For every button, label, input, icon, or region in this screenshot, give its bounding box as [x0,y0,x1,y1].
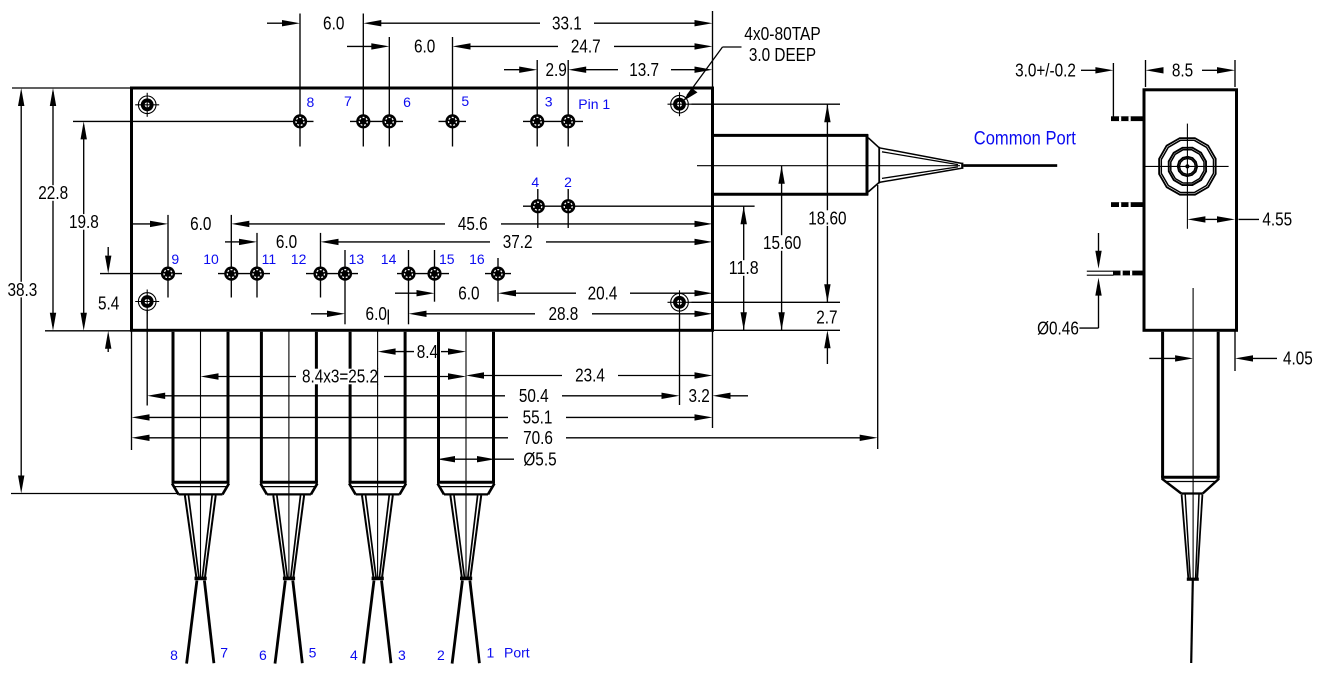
svg-text:Ø5.5: Ø5.5 [523,448,556,469]
svg-text:5: 5 [309,645,317,661]
svg-text:6.0: 6.0 [414,36,435,57]
svg-text:3.2: 3.2 [688,385,709,406]
svg-text:6: 6 [259,647,267,663]
svg-text:12: 12 [291,251,307,267]
svg-text:11: 11 [262,251,277,267]
svg-text:1: 1 [487,645,495,661]
svg-text:5.4: 5.4 [98,293,119,314]
svg-text:7: 7 [220,645,228,661]
svg-text:13: 13 [349,251,365,267]
svg-text:6.0: 6.0 [323,12,344,33]
svg-text:3.0 DEEP: 3.0 DEEP [749,44,816,65]
svg-text:38.3: 38.3 [8,279,38,300]
svg-text:7: 7 [344,93,352,109]
svg-text:33.1: 33.1 [552,12,582,33]
svg-text:4x0-80TAP: 4x0-80TAP [744,23,821,44]
svg-text:55.1: 55.1 [523,407,553,428]
svg-text:4: 4 [531,174,539,190]
svg-text:15.60: 15.60 [763,232,801,253]
svg-text:22.8: 22.8 [38,182,68,203]
svg-text:37.2: 37.2 [503,231,533,252]
svg-text:5: 5 [461,93,469,109]
svg-text:23.4: 23.4 [575,365,605,386]
svg-text:11.8: 11.8 [729,257,759,278]
svg-text:3: 3 [398,647,406,663]
svg-text:Port: Port [504,645,530,661]
svg-text:3: 3 [545,94,553,110]
svg-text:70.6: 70.6 [523,427,553,448]
svg-text:13.7: 13.7 [629,59,659,80]
svg-text:8: 8 [307,94,315,110]
svg-text:14: 14 [381,251,397,267]
svg-text:15: 15 [439,251,455,267]
svg-text:20.4: 20.4 [588,282,618,303]
svg-text:Pin 1: Pin 1 [578,96,610,112]
svg-text:2.9: 2.9 [545,59,566,80]
svg-text:6.0: 6.0 [276,231,297,252]
svg-text:4: 4 [350,647,358,663]
svg-text:2: 2 [564,174,572,190]
svg-text:2: 2 [437,647,445,663]
svg-text:Ø0.46: Ø0.46 [1037,317,1079,338]
svg-text:8: 8 [170,647,178,663]
svg-text:Common Port: Common Port [974,129,1077,150]
svg-text:8.5: 8.5 [1172,60,1193,81]
svg-text:45.6: 45.6 [458,213,488,234]
svg-text:9: 9 [171,251,179,267]
svg-text:28.8: 28.8 [549,303,579,324]
svg-text:8.4: 8.4 [417,341,438,362]
svg-text:6.0: 6.0 [366,303,387,324]
svg-text:16: 16 [469,251,485,267]
svg-text:3.0+/-0.2: 3.0+/-0.2 [1015,60,1076,81]
svg-text:24.7: 24.7 [571,36,601,57]
svg-text:50.4: 50.4 [519,385,549,406]
svg-text:10: 10 [203,251,219,267]
svg-text:6.0: 6.0 [190,213,211,234]
svg-text:4.55: 4.55 [1262,209,1292,230]
svg-text:19.8: 19.8 [69,211,99,232]
svg-text:6: 6 [403,94,411,110]
svg-text:18.60: 18.60 [808,207,846,228]
svg-text:4.05: 4.05 [1283,348,1313,369]
svg-text:2.7: 2.7 [816,307,837,328]
svg-text:6.0: 6.0 [458,282,479,303]
svg-text:8.4x3=25.2: 8.4x3=25.2 [302,366,378,387]
